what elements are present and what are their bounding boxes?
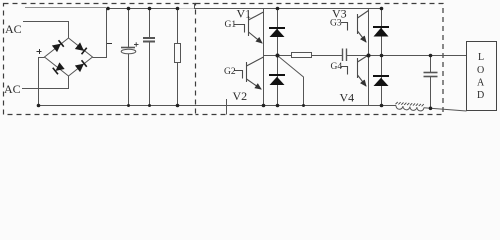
svg-text:O: O (477, 65, 484, 76)
svg-text:V2: V2 (233, 89, 248, 103)
svg-text:G4: G4 (331, 62, 343, 72)
wire left inverter leg IGBT side (263, 9, 265, 106)
LOAD box (467, 42, 497, 111)
wire right inverter leg IGBT side (368, 9, 370, 106)
junction dots midline (276, 54, 433, 58)
inductor L1 core hatch (396, 102, 424, 106)
svg-text:AC: AC (5, 22, 22, 36)
svg-text:V4: V4 (340, 91, 355, 105)
inverter unit dashed enclosure (196, 4, 444, 115)
diode D1 freewheel (269, 28, 285, 37)
capacitor C4 across load (424, 56, 438, 109)
capacitor C1 electrolytic (121, 9, 136, 106)
wire right inverter leg diode side (381, 9, 383, 106)
junction dots bottom rail (37, 104, 433, 110)
rectifier unit dashed enclosure (4, 4, 196, 115)
diode D-TL of bridge (52, 40, 64, 52)
transistor V2 IGBT (234, 57, 264, 89)
svg-text:D: D (477, 90, 484, 101)
wire left inverter leg diode side (277, 9, 279, 106)
diode D-BL of bridge (53, 62, 65, 74)
capacitor C3 series output (343, 49, 346, 62)
svg-text:V1: V1 (237, 7, 252, 21)
polarity plus mark (37, 49, 42, 54)
wire right vertex stub and riser (93, 9, 107, 58)
polarity minus mark (107, 43, 112, 45)
wire diagonal from left midpoint to bottom (278, 56, 304, 106)
svg-text:A: A (477, 78, 485, 89)
diode D3 freewheel (373, 27, 389, 37)
diode D2 freewheel (269, 75, 285, 85)
wire AC top lead (23, 22, 69, 39)
resistor R2 in output (292, 53, 312, 58)
polarity plus of C1 (134, 42, 139, 46)
faint upper trace left box (25, 7, 106, 9)
svg-text:AC: AC (4, 82, 21, 96)
transistor V4 IGBT (341, 55, 369, 86)
diode D-TR of bridge (75, 42, 87, 54)
wire stub to enclosure bottom (226, 99, 228, 115)
svg-text:G3: G3 (330, 19, 342, 29)
diode D4 freewheel (373, 76, 389, 86)
svg-text:G1: G1 (225, 20, 237, 30)
wire inverter output midline (264, 55, 343, 57)
wire rail jog (194, 4, 196, 9)
svg-text:L: L (478, 52, 484, 63)
junction dots top rail (106, 7, 383, 11)
wire DC- bottom rail (38, 105, 396, 107)
capacitor C2 filter (143, 9, 155, 106)
diode D-BR of bridge (75, 60, 87, 72)
transistor V1 IGBT (234, 12, 264, 43)
bridge rectifier diamond wires (45, 38, 93, 76)
svg-text:G2: G2 (224, 67, 236, 77)
wire left vertex stub and drop (39, 58, 45, 106)
wire AC bottom lead (22, 76, 69, 89)
transistor V3 IGBT (341, 11, 369, 43)
wire DC+ top rail (106, 8, 178, 10)
resistor R1 bleeder (175, 9, 181, 106)
inductor L1 coil (396, 106, 424, 112)
